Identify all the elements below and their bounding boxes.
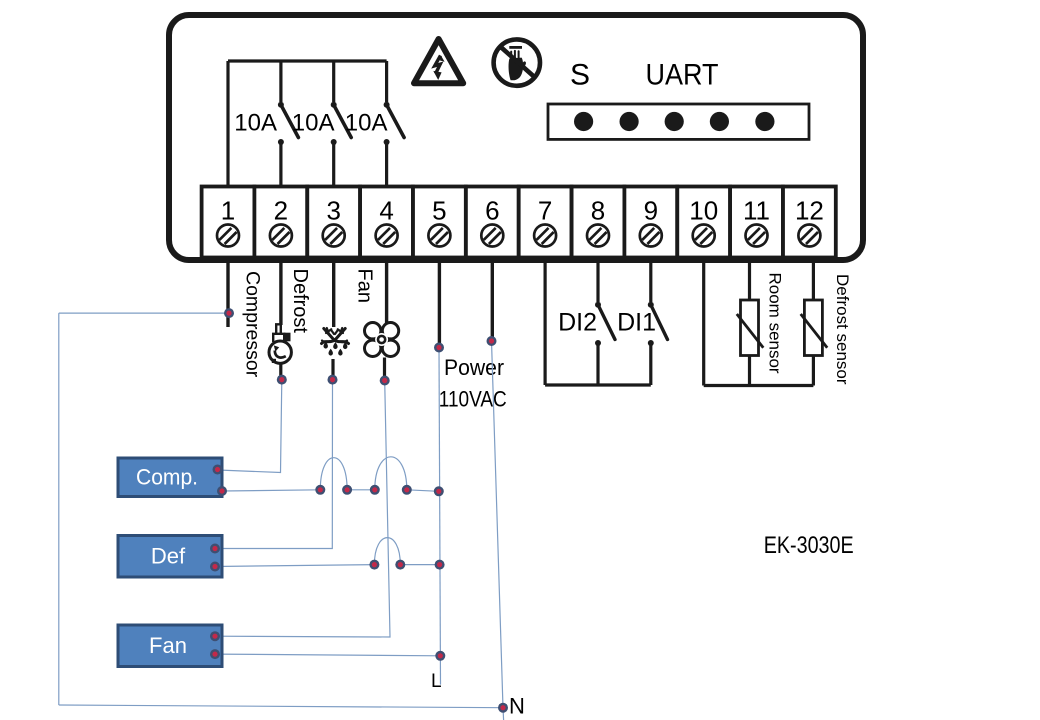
defrost sensor RT2 xyxy=(801,300,828,356)
wire room sensor to bracket xyxy=(748,356,751,386)
svg-text:Def: Def xyxy=(151,544,186,569)
relay contact K3 upper dot xyxy=(384,102,390,108)
node terminal6 xyxy=(487,336,497,346)
blue wire def lower row xyxy=(215,565,374,567)
fan icon xyxy=(365,323,399,357)
connector J1 pin 5 xyxy=(755,112,774,131)
blue wire compressor branch xyxy=(218,380,282,473)
svg-text:10A: 10A xyxy=(292,110,335,137)
blue wire net L top horizontal xyxy=(59,312,229,314)
relay contact K3 lower dot xyxy=(384,139,390,145)
relay contact K1 lower dot xyxy=(278,139,284,145)
svg-text:11: 11 xyxy=(743,196,770,226)
node fan row junction xyxy=(435,651,445,661)
terminal 12 xyxy=(783,187,836,258)
svg-text:Comp.: Comp. xyxy=(136,465,198,490)
node comp box lower xyxy=(217,486,227,496)
terminal 7 xyxy=(519,187,572,258)
wire terminal 11 to room sensor xyxy=(748,262,751,300)
svg-text:L: L xyxy=(431,671,442,692)
terminal 5 xyxy=(413,187,466,258)
wire K1 to terminal 2 xyxy=(279,142,282,186)
sensor bracket wire xyxy=(704,384,814,387)
switch DI1 lower dot xyxy=(648,340,654,346)
node def box upper xyxy=(210,544,220,554)
node compressor out xyxy=(277,375,287,385)
node comp row junction xyxy=(434,486,444,496)
node fan box lower xyxy=(210,649,220,659)
relay contact K1 upper dot xyxy=(278,102,284,108)
svg-text:12: 12 xyxy=(795,196,824,226)
svg-text:1: 1 xyxy=(221,196,235,226)
node comp box upper xyxy=(213,465,223,475)
load box Comp. xyxy=(118,458,222,497)
terminal 3 xyxy=(307,187,360,258)
wire terminal 12 to defrost sensor xyxy=(812,262,815,300)
svg-text:N: N xyxy=(509,694,525,719)
blue wire fan lower row xyxy=(215,654,440,656)
wire DI1 to bracket xyxy=(649,343,652,385)
connector J1 pin 3 xyxy=(665,112,684,131)
wire terminal 6 down xyxy=(491,258,494,340)
relay contact K1 blade xyxy=(281,105,299,138)
node arc1 left xyxy=(315,485,325,495)
blue wire net L left vertical xyxy=(58,313,60,705)
connector J1 pin 2 xyxy=(620,112,639,131)
svg-text:Room sensor: Room sensor xyxy=(766,273,785,374)
svg-text:10A: 10A xyxy=(345,110,388,137)
relay contact K2 lower dot xyxy=(331,139,337,145)
compressor icon xyxy=(269,324,291,363)
terminal 4 xyxy=(360,187,413,258)
node arc1 right xyxy=(342,485,352,495)
DI bracket wire xyxy=(545,383,651,386)
blue wire defrost branch xyxy=(215,380,333,549)
node terminal1/L xyxy=(224,308,234,318)
blue wire segment xyxy=(407,490,439,492)
terminal strip xyxy=(202,187,836,258)
node arc2 left xyxy=(370,485,380,495)
svg-text:UART: UART xyxy=(646,59,719,92)
terminal 10 xyxy=(677,187,730,258)
blue wire net bottom horizontal xyxy=(59,705,503,708)
terminal 1 xyxy=(202,187,255,258)
wire K3 to terminal 4 xyxy=(385,142,388,186)
wire fan icon to node xyxy=(383,358,386,379)
blue wire fan branch xyxy=(215,381,390,637)
svg-text:Fan: Fan xyxy=(149,633,187,658)
svg-text:5: 5 xyxy=(432,196,446,226)
room sensor RT1 xyxy=(737,300,764,356)
blue wire N vertical xyxy=(492,341,504,720)
node terminal5 xyxy=(434,343,444,353)
controller U1 outline xyxy=(169,15,863,260)
blue wire comp lower row xyxy=(222,490,320,491)
relay contact K2 blade xyxy=(334,105,352,138)
svg-text:6: 6 xyxy=(485,196,499,226)
jump arc A3 xyxy=(374,538,400,565)
switch DI1 upper dot xyxy=(648,302,654,308)
node arc2 right xyxy=(402,485,412,495)
terminal 6 xyxy=(466,187,519,258)
wire terminal 8 to DI2 xyxy=(596,258,599,302)
node def row junction xyxy=(435,560,445,570)
switch DI2 blade xyxy=(598,305,615,340)
node fan out xyxy=(380,376,390,386)
svg-text:Defrost sensor: Defrost sensor xyxy=(833,274,852,385)
svg-text:110VAC: 110VAC xyxy=(439,387,507,412)
wire terminal 1 down xyxy=(226,258,229,327)
svg-text:10: 10 xyxy=(689,196,718,226)
node def box lower xyxy=(210,562,220,572)
svg-text:EK-3030E: EK-3030E xyxy=(764,532,854,559)
wire terminal 2 down xyxy=(279,258,282,325)
wire K2 to terminal 3 xyxy=(332,142,335,186)
node N xyxy=(498,703,508,713)
svg-text:8: 8 xyxy=(591,196,605,226)
relay contact K2 upper stub xyxy=(332,61,335,102)
wire terminal 9 to DI1 xyxy=(649,258,652,302)
svg-text:DI2: DI2 xyxy=(558,309,597,337)
connector J1 pin 1 xyxy=(574,112,593,131)
terminal 9 xyxy=(624,187,677,258)
relay contact K1 upper stub xyxy=(279,61,282,102)
relay bus wire xyxy=(228,59,387,62)
switch DI2 upper dot xyxy=(595,302,601,308)
wire bus to terminal 1 xyxy=(226,61,229,186)
svg-text:DI1: DI1 xyxy=(617,309,656,337)
svg-text:4: 4 xyxy=(379,196,393,226)
do-not-touch hand icon xyxy=(494,39,540,85)
wire terminal 10 down xyxy=(702,258,705,386)
switch DI1 blade xyxy=(651,305,668,340)
wire terminal 3 down xyxy=(332,258,335,327)
node defrost out xyxy=(328,375,338,385)
wire terminal 5 down xyxy=(438,258,441,347)
warning triangle icon xyxy=(414,39,463,83)
svg-text:3: 3 xyxy=(326,196,340,226)
wire DI2 to bracket xyxy=(596,343,599,385)
terminal 8 xyxy=(572,187,625,258)
defrost snowflake icon xyxy=(322,328,349,356)
terminal 11 xyxy=(730,187,783,258)
node arc3 right xyxy=(395,560,405,570)
relay contact K3 upper stub xyxy=(385,61,388,102)
blue wire L vertical xyxy=(439,348,441,685)
svg-text:S: S xyxy=(570,59,590,92)
node arc3 left xyxy=(369,560,379,570)
load box Def xyxy=(118,536,222,578)
svg-text:Defrost: Defrost xyxy=(289,269,311,334)
wire defrost sensor to bracket xyxy=(812,356,815,386)
load box Fan xyxy=(118,625,222,667)
jump arc A2 xyxy=(375,457,407,490)
connector J1 body xyxy=(548,104,809,139)
blue wire segment xyxy=(347,489,375,491)
relay contact K2 upper dot xyxy=(331,102,337,108)
svg-text:Fan: Fan xyxy=(354,269,376,303)
jump arc A1 xyxy=(320,458,347,490)
svg-text:Power: Power xyxy=(444,355,504,380)
svg-text:10A: 10A xyxy=(234,110,277,137)
wire terminal 7 down to DI bracket xyxy=(543,258,546,385)
terminal 2 xyxy=(254,187,307,258)
wire snowflake icon to node xyxy=(331,359,334,378)
switch DI2 lower dot xyxy=(595,340,601,346)
svg-text:7: 7 xyxy=(538,196,552,226)
blue wire segment xyxy=(400,564,439,566)
wire compressor icon to node xyxy=(279,364,282,379)
connector J1 pin 4 xyxy=(710,112,729,131)
svg-text:Compressor: Compressor xyxy=(242,271,264,378)
relay contact K3 blade xyxy=(387,105,405,138)
wire terminal 4 down xyxy=(385,258,388,323)
svg-text:2: 2 xyxy=(274,196,288,226)
node fan box upper xyxy=(210,631,220,641)
svg-text:9: 9 xyxy=(644,196,658,226)
